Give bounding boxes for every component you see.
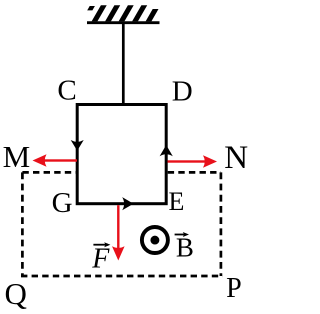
- svg-text:G: G: [52, 187, 73, 219]
- svg-text:Q: Q: [5, 276, 27, 311]
- field symbol B (circle with dot, out of page): [142, 227, 168, 253]
- svg-text:M: M: [3, 139, 31, 174]
- dashed left edge: [21, 172, 24, 276]
- svg-text:B: B: [176, 233, 194, 263]
- square loop CDEG: [77, 105, 166, 204]
- dashed bottom edge: [21, 275, 223, 278]
- vector arrow over B: [175, 234, 187, 236]
- red force arrow F (down): [112, 205, 125, 260]
- current arrow down on side CG: [71, 140, 84, 151]
- svg-text:C: C: [57, 74, 76, 106]
- red force arrow at N (right): [168, 155, 218, 168]
- svg-text:D: D: [172, 75, 193, 107]
- vector arrow over F: [93, 244, 108, 246]
- current arrow up on side ED: [160, 145, 173, 156]
- current arrow right on side GE: [122, 197, 133, 210]
- ceiling line: [87, 21, 160, 24]
- dashed top-right segment: [168, 171, 221, 174]
- ceiling hatching: [87, 5, 158, 21]
- svg-text:N: N: [224, 140, 248, 176]
- svg-text:P: P: [226, 273, 242, 304]
- red force arrow at M (left): [33, 154, 78, 167]
- string wire: [122, 23, 125, 105]
- svg-text:E: E: [169, 187, 185, 216]
- svg-text:F: F: [91, 244, 110, 275]
- dashed field region MNPQ: top-left segment: [22, 171, 75, 174]
- dashed right edge: [220, 172, 223, 276]
